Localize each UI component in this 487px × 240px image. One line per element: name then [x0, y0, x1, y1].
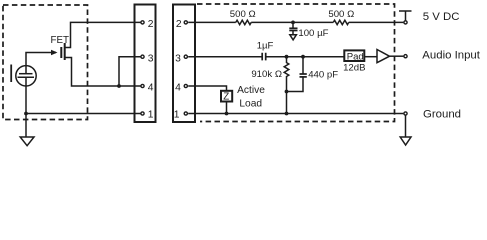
wire RC to ground rail	[286, 92, 288, 114]
pad attenuator box	[344, 50, 364, 61]
svg-text:Audio Input: Audio Input	[422, 50, 480, 62]
ground C1 (arrow)	[290, 35, 297, 40]
microphone enclosure dashed box	[3, 5, 88, 120]
C1 ground stem	[292, 31, 294, 35]
pin 4 circle J2	[184, 84, 187, 87]
wire to output ground	[405, 115, 407, 137]
junction R3 tap	[285, 55, 289, 59]
wire capsule top lead to gate	[26, 53, 56, 74]
active load box Z	[221, 91, 232, 102]
wire FET drain to pin 2	[65, 22, 141, 47]
svg-text:3: 3	[175, 53, 181, 64]
svg-text:Load: Load	[239, 98, 262, 109]
connector J1 (mic side) body	[135, 5, 156, 123]
svg-text:4: 4	[148, 83, 154, 94]
wire FET source to pin 4	[65, 58, 141, 87]
wire pad to buffer	[364, 56, 377, 58]
terminal circle 5V	[404, 21, 407, 24]
ground mic (triangle)	[20, 137, 34, 146]
terminal circle audio	[404, 55, 407, 58]
svg-text:100 µF: 100 µF	[298, 28, 328, 39]
5V terminal tip bar	[399, 11, 412, 21]
connector J2 (adapter side) body	[173, 5, 195, 123]
wire jumper to pin 3	[119, 57, 141, 86]
svg-text:910k Ω: 910k Ω	[251, 69, 282, 80]
svg-text:Z: Z	[223, 91, 229, 102]
svg-text:2: 2	[176, 19, 182, 30]
wire pin 4 to active load	[188, 86, 226, 91]
wire ground rail	[188, 113, 403, 115]
wire pin 3 to capacitor C2	[188, 56, 262, 58]
junction C3 tap	[301, 55, 305, 59]
capsule diaphragm bar	[10, 65, 12, 83]
capacitor C3 440pF top lead	[302, 57, 304, 74]
C3 top plate	[300, 73, 307, 75]
C3 bottom lead	[287, 77, 304, 92]
resistor R3 910k zigzag	[284, 57, 289, 92]
svg-text:Active: Active	[237, 85, 265, 96]
svg-text:1µF: 1µF	[257, 41, 274, 52]
svg-text:FET: FET	[51, 35, 70, 46]
capacitor C2 1uF plates	[262, 53, 266, 61]
wire mic ground rail to pin 1	[26, 113, 141, 115]
junction active load-rail	[225, 112, 229, 116]
buffer amplifier triangle	[377, 50, 390, 63]
resistor R1 500 ohm zigzag	[236, 20, 251, 24]
wire capsule bottom lead	[25, 77, 27, 113]
ground output (triangle)	[400, 137, 411, 145]
svg-text:Ground: Ground	[423, 109, 461, 121]
pin 2 circle J2	[184, 21, 187, 24]
electret capsule circle	[16, 66, 36, 86]
junction capsule-ground	[24, 112, 28, 116]
wire R2 to 5V terminal	[349, 21, 404, 23]
wire pin 2 to resistor R1	[188, 21, 236, 23]
junction R3-C3 bottom	[285, 90, 289, 94]
wire R1 to junction	[251, 21, 333, 23]
C3 bottom plate	[300, 76, 307, 78]
pin 4 circle J1	[141, 84, 144, 87]
svg-text:500 Ω: 500 Ω	[328, 9, 354, 20]
gate arrow	[51, 50, 58, 55]
junction C1 tap	[291, 21, 295, 25]
FET gate bar	[60, 47, 62, 58]
pin 1 circle J1	[141, 112, 144, 115]
resistor R2 500 ohm zigzag	[333, 20, 348, 24]
junction RC-rail	[285, 112, 289, 116]
junction source-jumper	[117, 84, 121, 88]
svg-text:500 Ω: 500 Ω	[230, 9, 256, 20]
svg-text:2: 2	[148, 19, 154, 30]
svg-text:12dB: 12dB	[343, 62, 365, 73]
FET channel bar	[64, 43, 66, 60]
C1 top plate	[289, 27, 297, 29]
capsule bottom plate	[18, 76, 35, 78]
pin 3 circle J1	[141, 55, 144, 58]
C1 bottom plate	[289, 30, 297, 32]
svg-text:440 pF: 440 pF	[308, 70, 338, 81]
terminal circle ground	[404, 112, 407, 115]
pin 3 circle J2	[184, 55, 187, 58]
pin 2 circle J1	[141, 21, 144, 24]
wire C2 to pad	[266, 56, 344, 58]
svg-text:Pad: Pad	[347, 52, 364, 63]
adapter enclosure dashed box	[197, 4, 395, 122]
wire buffer to audio terminal	[390, 55, 404, 57]
svg-text:1: 1	[148, 109, 154, 120]
pin 1 circle J2	[184, 112, 187, 115]
capsule top plate	[19, 73, 33, 75]
svg-text:4: 4	[175, 83, 181, 94]
wire active load to rail	[226, 102, 228, 114]
svg-text:5 V DC: 5 V DC	[423, 11, 460, 23]
svg-text:3: 3	[148, 53, 154, 64]
wire to mic ground	[25, 114, 27, 138]
svg-text:1: 1	[174, 109, 180, 120]
capacitor C1 100uF lead	[292, 22, 294, 28]
